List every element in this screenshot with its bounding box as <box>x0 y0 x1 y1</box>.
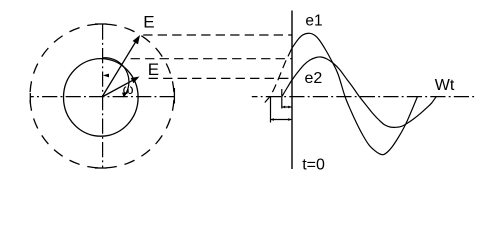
svg-text:ω: ω <box>123 81 134 97</box>
svg-text:Wt: Wt <box>435 77 455 94</box>
phasor E1 (long) <box>102 38 138 97</box>
right tick <box>173 88 175 104</box>
horizontal axis Wt <box>252 96 477 98</box>
phasor E2 (short) <box>102 78 137 97</box>
projection dashed line 2 <box>131 58 292 60</box>
e2 curve solid <box>282 57 436 127</box>
projection dashed line 1 <box>143 34 292 36</box>
upper dimension line with arrows <box>282 106 291 108</box>
rotation arc <box>103 58 129 95</box>
rotation arc arrowhead (bottom) <box>122 92 127 98</box>
left tick <box>29 93 31 103</box>
rotation direction arrowhead (left-pointing, near vertical axis) <box>103 74 109 78</box>
lower dimension line with arrows <box>271 119 292 121</box>
svg-text:E: E <box>148 60 159 79</box>
dimension middle vertical <box>281 89 283 109</box>
svg-text:t=0: t=0 <box>302 157 325 174</box>
svg-text:e2: e2 <box>305 70 323 87</box>
svg-text:E: E <box>143 12 154 31</box>
inner solid circle <box>64 59 139 137</box>
svg-text:e1: e1 <box>305 13 322 30</box>
bottom tick <box>95 167 107 169</box>
top tick <box>95 23 107 25</box>
horizontal centerline <box>30 96 174 98</box>
e1 dashed pre-extension <box>265 48 292 103</box>
projection dashed line 3 <box>149 77 292 79</box>
dimension left vertical <box>270 97 272 123</box>
vertical axis t=0 <box>291 11 293 170</box>
outer dashed circle <box>102 24 174 96</box>
e1 curve solid <box>292 33 418 154</box>
vertical centerline <box>102 25 104 169</box>
